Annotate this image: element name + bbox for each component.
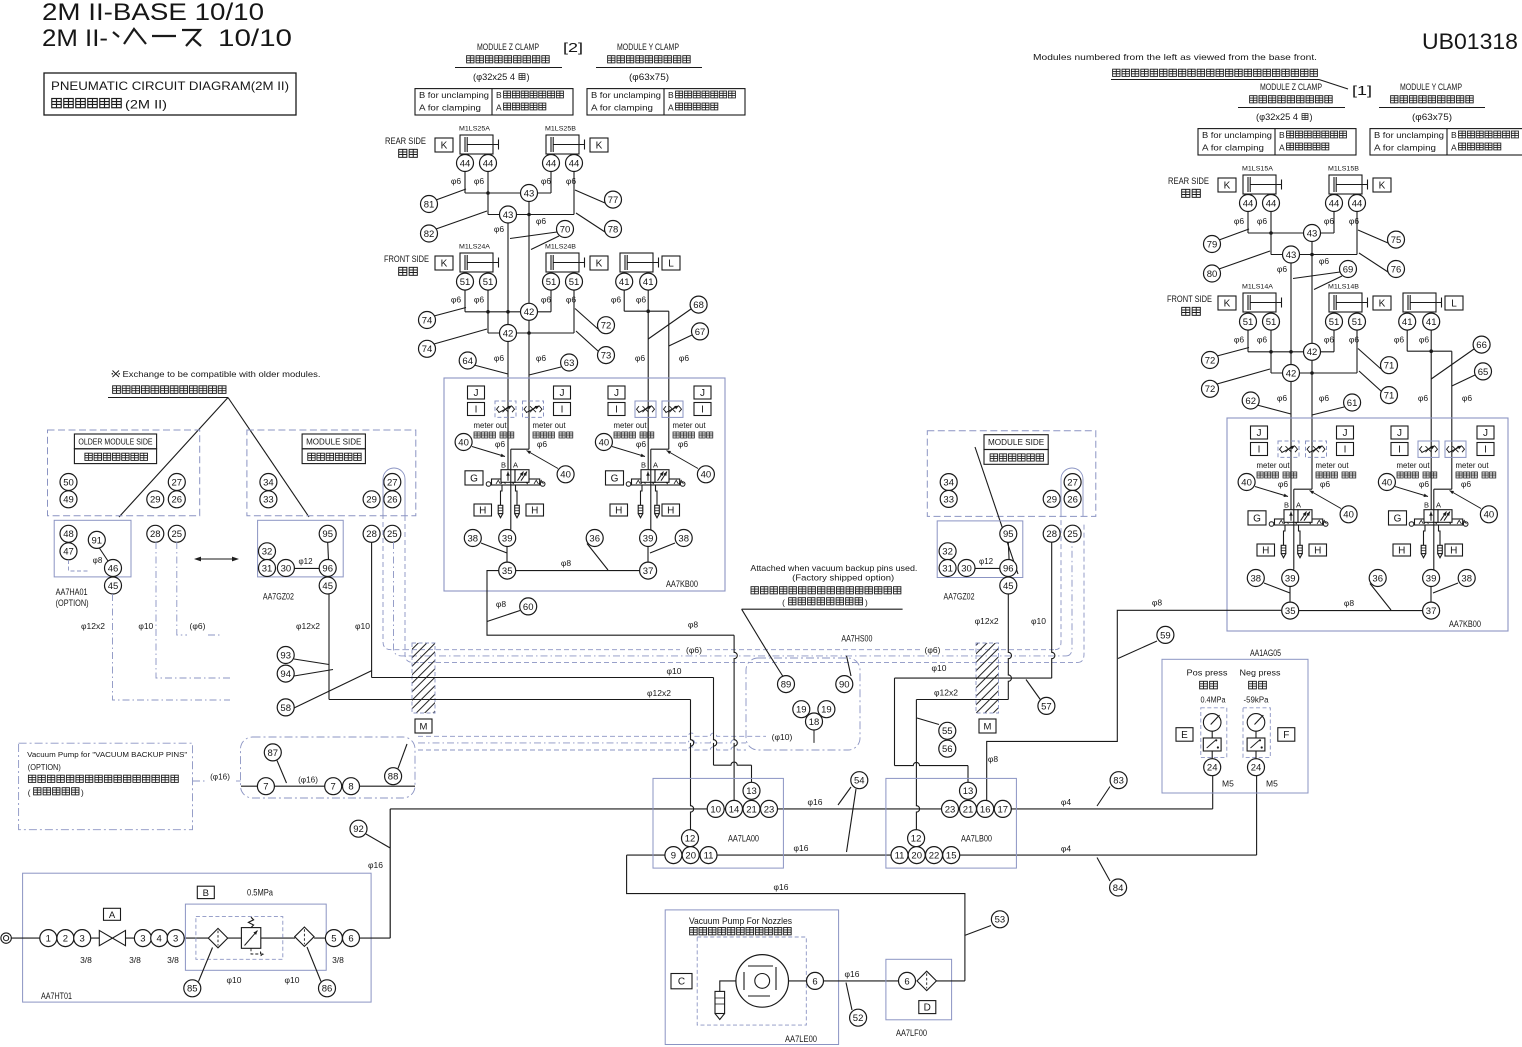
- svg-text:35: 35: [502, 566, 513, 577]
- svg-text:40: 40: [1484, 510, 1495, 521]
- svg-text:20: 20: [685, 851, 696, 862]
- svg-text:φ6: φ6: [474, 295, 485, 305]
- svg-text:84: 84: [1113, 883, 1124, 894]
- svg-text:44: 44: [1329, 198, 1340, 209]
- svg-text:φ6: φ6: [1349, 216, 1360, 226]
- svg-text:29: 29: [1046, 494, 1057, 505]
- svg-text:φ10: φ10: [285, 975, 300, 985]
- svg-text:21: 21: [746, 804, 757, 815]
- svg-text:meter out: meter out: [614, 421, 648, 430]
- svg-text:φ6: φ6: [495, 439, 506, 449]
- svg-text:A: A: [653, 461, 658, 470]
- svg-text:68: 68: [693, 300, 704, 311]
- svg-text:6: 6: [812, 976, 817, 987]
- svg-text:REAR SIDE: REAR SIDE: [1168, 176, 1209, 186]
- svg-text:36: 36: [1372, 573, 1383, 584]
- svg-text:10/10: 10/10: [218, 25, 292, 52]
- svg-text:): ): [81, 789, 84, 798]
- svg-text:85: 85: [187, 984, 198, 995]
- svg-text:26: 26: [387, 495, 398, 506]
- svg-text:J: J: [700, 388, 705, 399]
- svg-text:B for unclamping: B for unclamping: [591, 91, 661, 100]
- svg-text:(2M II): (2M II): [125, 98, 167, 112]
- svg-text:40: 40: [1382, 477, 1393, 488]
- svg-text:φ12: φ12: [298, 557, 313, 566]
- svg-text:44: 44: [483, 158, 494, 169]
- svg-text:φ6: φ6: [1419, 335, 1430, 345]
- svg-text:82: 82: [424, 229, 435, 240]
- svg-text:29: 29: [366, 495, 377, 506]
- svg-text:φ16: φ16: [808, 797, 823, 807]
- svg-text:): ): [1310, 112, 1313, 122]
- svg-text:15: 15: [946, 851, 957, 862]
- svg-text:70: 70: [560, 224, 571, 235]
- svg-text:27: 27: [387, 477, 398, 488]
- svg-text:AA7GZ02: AA7GZ02: [944, 592, 975, 602]
- svg-text:(φ16): (φ16): [298, 776, 318, 785]
- svg-text:F: F: [1283, 730, 1289, 741]
- svg-text:K: K: [1224, 181, 1231, 192]
- svg-text:φ8: φ8: [1152, 598, 1163, 608]
- svg-text:95: 95: [322, 529, 333, 540]
- svg-text:3: 3: [140, 934, 145, 945]
- svg-text:37: 37: [643, 566, 654, 577]
- svg-text:M1LS15B: M1LS15B: [1328, 166, 1359, 173]
- svg-text:55: 55: [942, 726, 953, 737]
- svg-text:17: 17: [998, 804, 1009, 815]
- svg-text:95: 95: [1003, 529, 1014, 540]
- svg-text:meter out: meter out: [1456, 461, 1490, 470]
- svg-text:63: 63: [564, 358, 575, 369]
- svg-text:80: 80: [1207, 269, 1218, 280]
- svg-text:A for clamping: A for clamping: [591, 104, 654, 113]
- svg-text:6: 6: [348, 934, 353, 945]
- svg-text:φ10: φ10: [355, 621, 370, 631]
- svg-text:B: B: [496, 90, 502, 100]
- svg-text:A for clamping: A for clamping: [1202, 144, 1265, 153]
- svg-text:φ6: φ6: [1234, 335, 1245, 345]
- svg-text:83: 83: [1113, 776, 1124, 787]
- svg-text:48: 48: [63, 529, 74, 540]
- svg-text:18: 18: [809, 717, 820, 728]
- svg-text:11: 11: [704, 851, 714, 862]
- svg-text:B: B: [1284, 501, 1289, 510]
- svg-text:3/8: 3/8: [129, 955, 141, 965]
- svg-text:meter out: meter out: [1397, 461, 1431, 470]
- svg-text:M1LS24B: M1LS24B: [545, 244, 576, 251]
- svg-text:MODULE SIDE: MODULE SIDE: [306, 437, 362, 447]
- svg-text:72: 72: [1205, 384, 1216, 395]
- svg-text:3: 3: [80, 934, 85, 945]
- svg-text:φ6: φ6: [1394, 335, 1405, 345]
- svg-text:32: 32: [942, 547, 953, 558]
- svg-text:8: 8: [348, 782, 353, 793]
- svg-text:(φ63x75): (φ63x75): [1412, 112, 1452, 122]
- svg-text:φ6: φ6: [1319, 256, 1330, 266]
- svg-text:J: J: [560, 388, 565, 399]
- svg-text:φ6: φ6: [636, 439, 647, 449]
- svg-text:(OPTION): (OPTION): [28, 763, 61, 772]
- svg-text:φ12x2: φ12x2: [81, 621, 105, 631]
- svg-text:67: 67: [695, 327, 706, 338]
- svg-text:28: 28: [1046, 529, 1057, 540]
- svg-text:2: 2: [63, 934, 68, 945]
- svg-text:I: I: [1398, 445, 1401, 456]
- svg-text:0.5MPa: 0.5MPa: [247, 888, 273, 898]
- svg-text:81: 81: [424, 199, 435, 210]
- svg-text:30: 30: [281, 563, 292, 574]
- svg-text:B for unclamping: B for unclamping: [1202, 131, 1272, 140]
- svg-text:44: 44: [460, 158, 471, 169]
- svg-text:87: 87: [268, 748, 279, 759]
- svg-text:B: B: [501, 461, 506, 470]
- svg-text:69: 69: [1343, 264, 1354, 275]
- svg-text:14: 14: [729, 804, 740, 815]
- svg-text:51: 51: [1243, 317, 1254, 328]
- svg-text:φ4: φ4: [1061, 844, 1072, 854]
- svg-text:74: 74: [422, 315, 433, 326]
- svg-text:I: I: [561, 405, 564, 416]
- svg-text:FRONT SIDE: FRONT SIDE: [384, 254, 429, 264]
- svg-text:(φ6): (φ6): [190, 621, 206, 631]
- svg-text:FRONT SIDE: FRONT SIDE: [1167, 294, 1212, 304]
- svg-text:AA7KB00: AA7KB00: [666, 579, 698, 589]
- svg-text:φ6: φ6: [536, 216, 547, 226]
- svg-text:φ6: φ6: [1324, 216, 1335, 226]
- svg-text:φ6: φ6: [474, 176, 485, 186]
- svg-text:27: 27: [172, 477, 183, 488]
- svg-text:42: 42: [1286, 368, 1297, 379]
- svg-text:57: 57: [1041, 701, 1052, 712]
- svg-text:φ6: φ6: [494, 224, 505, 234]
- svg-text:J: J: [474, 388, 479, 399]
- svg-text:AA7LE00: AA7LE00: [785, 1034, 817, 1044]
- svg-text:45: 45: [1003, 581, 1014, 592]
- svg-text:44: 44: [569, 158, 580, 169]
- svg-text:72: 72: [601, 321, 612, 332]
- svg-text:meter out: meter out: [1257, 461, 1291, 470]
- svg-text:3/8: 3/8: [167, 955, 179, 965]
- svg-text:2M II-: 2M II-: [42, 25, 108, 52]
- svg-text:φ6: φ6: [636, 295, 647, 305]
- svg-text:C: C: [678, 977, 685, 988]
- svg-text:φ6: φ6: [1278, 479, 1289, 489]
- svg-text:39: 39: [1285, 573, 1296, 584]
- svg-text:φ6: φ6: [451, 295, 462, 305]
- svg-text:(φ10): (φ10): [772, 732, 793, 742]
- svg-text:7: 7: [263, 782, 268, 793]
- svg-text:K: K: [441, 141, 448, 152]
- svg-text:41: 41: [619, 277, 630, 288]
- svg-text:A: A: [513, 461, 518, 470]
- svg-text:20: 20: [911, 851, 922, 862]
- svg-text:38: 38: [468, 533, 479, 544]
- svg-text:MODULE Z CLAMP: MODULE Z CLAMP: [1260, 82, 1322, 92]
- svg-text:φ6: φ6: [679, 353, 690, 363]
- svg-text:meter out: meter out: [1316, 461, 1350, 470]
- svg-text:I: I: [475, 405, 478, 416]
- svg-text:(: (: [28, 789, 31, 798]
- svg-text:43: 43: [1307, 228, 1318, 239]
- svg-text:7: 7: [331, 782, 336, 793]
- svg-text:27: 27: [1067, 478, 1078, 489]
- svg-text:21: 21: [963, 804, 974, 815]
- svg-text:φ12x2: φ12x2: [975, 616, 999, 626]
- svg-text:φ10: φ10: [1031, 616, 1046, 626]
- svg-text:OLDER MODULE SIDE: OLDER MODULE SIDE: [78, 437, 152, 447]
- svg-text:89: 89: [781, 680, 792, 691]
- svg-text:28: 28: [150, 529, 161, 540]
- svg-text:38: 38: [678, 533, 689, 544]
- svg-text:41: 41: [1426, 317, 1437, 328]
- svg-text:G: G: [470, 473, 478, 484]
- svg-text:φ8: φ8: [496, 599, 507, 609]
- svg-text:71: 71: [1384, 361, 1395, 372]
- svg-text:M1LS25A: M1LS25A: [459, 126, 490, 133]
- svg-text:AA7HA01: AA7HA01: [56, 587, 88, 597]
- svg-text:78: 78: [608, 224, 619, 235]
- svg-text:11: 11: [895, 851, 905, 862]
- svg-text:40: 40: [1343, 510, 1354, 521]
- svg-text:φ16: φ16: [794, 843, 809, 853]
- svg-text:25: 25: [172, 529, 183, 540]
- svg-text:A: A: [1451, 143, 1457, 153]
- svg-text:J: J: [1483, 428, 1488, 439]
- svg-text:AA7LA00: AA7LA00: [728, 834, 759, 844]
- svg-text:93: 93: [280, 650, 291, 661]
- svg-text:I: I: [1258, 445, 1261, 456]
- svg-text:AA7LF00: AA7LF00: [896, 1028, 927, 1038]
- svg-text:24: 24: [1207, 763, 1218, 774]
- svg-text:42: 42: [1307, 347, 1318, 358]
- svg-text:φ6: φ6: [1277, 393, 1288, 403]
- svg-text:66: 66: [1476, 340, 1487, 351]
- svg-text:φ16: φ16: [368, 860, 383, 870]
- svg-text:G: G: [611, 473, 619, 484]
- svg-text:M1LS25B: M1LS25B: [545, 126, 576, 133]
- svg-text:31: 31: [262, 563, 273, 574]
- svg-text:42: 42: [524, 307, 535, 318]
- svg-text:AA7LB00: AA7LB00: [961, 834, 992, 844]
- svg-text:56: 56: [942, 744, 953, 755]
- svg-text:φ6: φ6: [536, 353, 547, 363]
- svg-text:B: B: [1424, 501, 1429, 510]
- svg-text:(φ6): (φ6): [686, 645, 702, 655]
- svg-text:(φ63x75): (φ63x75): [629, 72, 669, 82]
- svg-text:φ6: φ6: [1462, 393, 1473, 403]
- svg-text:2M II-BASE 10/10: 2M II-BASE 10/10: [42, 0, 264, 26]
- svg-text:A: A: [1296, 501, 1301, 510]
- svg-text:40: 40: [1241, 477, 1252, 488]
- svg-text:M1LS14B: M1LS14B: [1328, 284, 1359, 291]
- svg-text:23: 23: [945, 804, 956, 815]
- svg-text:Vacuum Pump For Nozzles: Vacuum Pump For Nozzles: [689, 916, 792, 926]
- svg-text:I: I: [615, 405, 618, 416]
- svg-text:H: H: [479, 506, 486, 517]
- svg-text:J: J: [1257, 428, 1262, 439]
- svg-text:MODULE Y CLAMP: MODULE Y CLAMP: [1400, 82, 1462, 92]
- svg-text:B for unclamping: B for unclamping: [1374, 131, 1444, 140]
- svg-text:96: 96: [322, 563, 333, 574]
- svg-text:76: 76: [1391, 264, 1402, 275]
- svg-text:19: 19: [821, 705, 832, 716]
- svg-text:(Factory shipped option): (Factory shipped option): [792, 574, 894, 583]
- svg-text:φ8: φ8: [561, 558, 572, 568]
- svg-text:44: 44: [1266, 198, 1277, 209]
- svg-text:44: 44: [1352, 198, 1363, 209]
- svg-text:16: 16: [980, 804, 991, 815]
- svg-text:34: 34: [263, 477, 274, 488]
- svg-text:φ6: φ6: [1419, 479, 1430, 489]
- svg-text:M: M: [984, 722, 992, 733]
- svg-text:25: 25: [1067, 529, 1078, 540]
- svg-text:59: 59: [1160, 630, 1171, 641]
- svg-text:MODULE SIDE: MODULE SIDE: [988, 437, 1044, 447]
- svg-text:Modules numbered from the left: Modules numbered from the left as viewed…: [1033, 52, 1317, 62]
- svg-text:A: A: [668, 103, 674, 113]
- svg-text:AA1AG05: AA1AG05: [1250, 648, 1281, 658]
- svg-text:K: K: [1379, 299, 1386, 310]
- svg-text:I: I: [1484, 445, 1487, 456]
- svg-text:M: M: [420, 722, 428, 733]
- svg-text:φ6: φ6: [541, 295, 552, 305]
- svg-text:B for unclamping: B for unclamping: [419, 91, 489, 100]
- svg-text:79: 79: [1207, 239, 1218, 250]
- svg-text:meter out: meter out: [474, 421, 508, 430]
- svg-text:M5: M5: [1266, 779, 1278, 789]
- svg-text:10: 10: [710, 804, 721, 815]
- svg-text:J: J: [1397, 428, 1402, 439]
- svg-text:AA7GZ02: AA7GZ02: [263, 592, 294, 602]
- svg-text:5: 5: [331, 934, 336, 945]
- svg-text:43: 43: [524, 188, 535, 199]
- svg-text:MODULE Z CLAMP: MODULE Z CLAMP: [477, 42, 539, 52]
- svg-text:30: 30: [961, 563, 972, 574]
- svg-text:40: 40: [458, 437, 469, 448]
- svg-text:B: B: [668, 90, 674, 100]
- svg-text:45: 45: [108, 581, 119, 592]
- svg-text:AA7HS00: AA7HS00: [841, 634, 872, 644]
- svg-text:): ): [527, 72, 530, 82]
- svg-text:I: I: [701, 405, 704, 416]
- svg-text:3/8: 3/8: [80, 955, 92, 965]
- svg-text:φ6: φ6: [1257, 216, 1268, 226]
- svg-text:M1LS24A: M1LS24A: [459, 244, 490, 251]
- svg-text:A: A: [1436, 501, 1441, 510]
- svg-text:K: K: [1224, 299, 1231, 310]
- svg-text:62: 62: [1245, 396, 1256, 407]
- svg-text:K: K: [596, 259, 603, 270]
- svg-text:φ6: φ6: [1234, 216, 1245, 226]
- svg-text:φ16: φ16: [845, 969, 860, 979]
- svg-text:φ4: φ4: [1061, 797, 1072, 807]
- svg-text:54: 54: [854, 776, 865, 787]
- svg-text:PNEUMATIC CIRCUIT DIAGRAM(2M I: PNEUMATIC CIRCUIT DIAGRAM(2M II): [51, 79, 289, 93]
- svg-text:φ6: φ6: [537, 439, 548, 449]
- svg-text:L: L: [1451, 299, 1457, 310]
- svg-text:77: 77: [608, 195, 619, 206]
- svg-text:meter out: meter out: [533, 421, 567, 430]
- svg-text:51: 51: [1266, 317, 1277, 328]
- svg-text:1: 1: [46, 934, 51, 945]
- svg-text:61: 61: [1347, 398, 1358, 409]
- svg-text:D: D: [924, 1003, 931, 1014]
- svg-text:φ6: φ6: [1418, 393, 1429, 403]
- svg-text:32: 32: [262, 547, 273, 558]
- svg-text:φ6: φ6: [1277, 264, 1288, 274]
- svg-text:φ6: φ6: [1319, 393, 1330, 403]
- svg-text:19: 19: [796, 705, 807, 716]
- svg-text:H: H: [531, 506, 538, 517]
- svg-text:25: 25: [387, 529, 398, 540]
- svg-text:φ6: φ6: [451, 176, 462, 186]
- svg-text:UB01318: UB01318: [1422, 29, 1518, 54]
- svg-text:51: 51: [1329, 317, 1340, 328]
- svg-text:65: 65: [1478, 367, 1489, 378]
- svg-text:L: L: [668, 259, 674, 270]
- svg-text:28: 28: [366, 529, 377, 540]
- svg-text:K: K: [1379, 181, 1386, 192]
- svg-text:B: B: [1451, 130, 1457, 140]
- svg-text:Attached when vacuum backup pi: Attached when vacuum backup pins used.: [750, 564, 917, 573]
- svg-text:39: 39: [643, 533, 654, 544]
- svg-text:94: 94: [280, 669, 291, 680]
- svg-text:φ10: φ10: [138, 621, 153, 631]
- svg-text:71: 71: [1384, 391, 1395, 402]
- svg-text:E: E: [1181, 730, 1188, 741]
- svg-text:φ12: φ12: [979, 557, 994, 566]
- svg-text:φ12x2: φ12x2: [647, 688, 671, 698]
- svg-text:AA7HT01: AA7HT01: [41, 991, 72, 1001]
- svg-text:26: 26: [172, 495, 183, 506]
- svg-text:Neg press: Neg press: [1240, 668, 1281, 678]
- svg-text:38: 38: [1461, 573, 1472, 584]
- svg-text:G: G: [1253, 513, 1261, 524]
- svg-text:90: 90: [839, 680, 850, 691]
- svg-text:86: 86: [322, 984, 333, 995]
- svg-text:6: 6: [904, 976, 909, 987]
- svg-text:40: 40: [560, 470, 571, 481]
- svg-text:13: 13: [963, 786, 974, 797]
- svg-text:24: 24: [1251, 763, 1262, 774]
- svg-text:29: 29: [150, 495, 161, 506]
- svg-text:12: 12: [911, 834, 922, 845]
- svg-text:51: 51: [483, 277, 494, 288]
- svg-text:J: J: [614, 388, 619, 399]
- svg-text:[1]: [1]: [1352, 83, 1372, 98]
- svg-text:Pos press: Pos press: [1187, 668, 1228, 678]
- svg-text:φ6: φ6: [1324, 335, 1335, 345]
- svg-text:(φ6): (φ6): [925, 645, 941, 655]
- svg-text:φ16: φ16: [774, 882, 789, 892]
- svg-text:A for clamping: A for clamping: [419, 104, 482, 113]
- svg-text:φ8: φ8: [688, 620, 699, 630]
- svg-text:(φ32x25 4: (φ32x25 4: [473, 72, 515, 82]
- svg-text:44: 44: [1243, 198, 1254, 209]
- svg-text:92: 92: [353, 824, 364, 835]
- svg-text:φ6: φ6: [1349, 335, 1360, 345]
- svg-text:H: H: [1262, 546, 1269, 557]
- svg-text:REAR SIDE: REAR SIDE: [385, 136, 426, 146]
- svg-text:φ6: φ6: [611, 295, 622, 305]
- svg-text:4: 4: [157, 934, 162, 945]
- svg-text:(φ32x25 4: (φ32x25 4: [1256, 112, 1298, 122]
- svg-text:74: 74: [422, 344, 433, 355]
- svg-text:φ6: φ6: [635, 353, 646, 363]
- svg-text:33: 33: [263, 495, 274, 506]
- svg-text:37: 37: [1426, 606, 1437, 617]
- svg-text:[2]: [2]: [563, 40, 583, 55]
